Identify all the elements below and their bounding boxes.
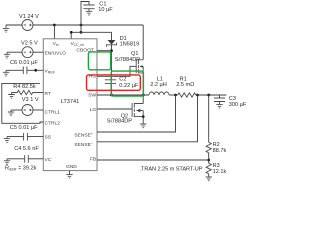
- svg-text:R4 82.5k: R4 82.5k: [13, 84, 36, 90]
- resistor R4 82.5k: [12, 84, 44, 95]
- ground (C5): [4, 137, 10, 143]
- svg-text:Vin: Vin: [53, 41, 59, 47]
- node junction: [142, 115, 145, 118]
- wire: [6, 69, 23, 71]
- node junction: [142, 94, 145, 97]
- svg-text:SW: SW: [88, 93, 96, 99]
- wire V_IN pin: [53, 25, 55, 39]
- capacitor C3: [214, 95, 247, 108]
- svg-text:88.7k: 88.7k: [213, 148, 227, 154]
- svg-text:C3: C3: [229, 96, 236, 102]
- ground (C3): [216, 102, 222, 109]
- diode D1 1N5819: [107, 32, 140, 50]
- annotation red box C2: [87, 75, 141, 90]
- resistor R1 2.5 mOhm: [176, 76, 196, 97]
- svg-text:CTRL1: CTRL1: [45, 110, 61, 116]
- svg-text:EN/UVLO: EN/UVLO: [45, 51, 67, 57]
- wire output net: [196, 94, 227, 96]
- svg-text:10 µF: 10 µF: [98, 7, 113, 13]
- svg-text:GND: GND: [66, 164, 77, 170]
- wire C1 branch: [81, 2, 89, 26]
- ground (V3 negative): [8, 110, 14, 116]
- ground (V2 negative): [4, 52, 10, 58]
- wire FB: [97, 159, 209, 161]
- transistor Q2 Si7884DP: [107, 103, 143, 124]
- wire SS: [27, 136, 43, 138]
- wire C2 top lead: [111, 51, 113, 80]
- node junction: [196, 94, 199, 97]
- ground (V1 negative): [3, 25, 9, 32]
- wire CTRL2 loop: [2, 83, 44, 123]
- wire SENSE-: [97, 95, 198, 142]
- svg-text:LG: LG: [90, 107, 97, 113]
- capacitor C1: [83, 1, 113, 13]
- ground (R4): [8, 93, 14, 99]
- ground (C4): [4, 159, 10, 165]
- wire: [169, 94, 178, 96]
- svg-text:Si7884DP: Si7884DP: [107, 118, 132, 124]
- node junction: [110, 49, 113, 52]
- svg-text:C5 0.01 µF: C5 0.01 µF: [10, 125, 38, 131]
- svg-text:RSER = 39.2k: RSER = 39.2k: [5, 166, 37, 172]
- wire VC: [28, 158, 43, 160]
- wire SENSE+: [97, 95, 176, 132]
- svg-text:1N5819: 1N5819: [120, 42, 140, 48]
- wire R2 top lead: [208, 95, 210, 142]
- svg-text:0.22 µF: 0.22 µF: [119, 83, 139, 89]
- wire Q1 source to SW: [142, 73, 144, 95]
- IC U1 LT3741: [43, 39, 97, 171]
- svg-text:C2: C2: [119, 76, 126, 82]
- wire: [7, 158, 25, 160]
- svg-text:C6 0.01 µF: C6 0.01 µF: [10, 60, 38, 66]
- ground (Q2 source): [140, 117, 146, 128]
- wire SW: [97, 94, 149, 96]
- capacitor C5: [10, 125, 38, 140]
- wire VREF: [27, 69, 43, 71]
- voltage source V1: [19, 14, 39, 31]
- wire FB node: [208, 153, 210, 164]
- ground (C1): [86, 9, 92, 15]
- wire LG: [97, 108, 132, 110]
- svg-text:R2: R2: [213, 142, 220, 148]
- wire HG: [97, 66, 136, 76]
- svg-text:V3 1 V: V3 1 V: [22, 97, 39, 103]
- ground (IC GND pin): [66, 171, 72, 179]
- node junction: [207, 94, 210, 97]
- node junction: [80, 31, 83, 34]
- wire: [7, 51, 22, 53]
- svg-text:SENSE+: SENSE+: [74, 132, 93, 138]
- wire VIN bus: [33, 25, 143, 60]
- svg-text:Si7884DP: Si7884DP: [115, 57, 140, 63]
- voltage source V2: [21, 41, 38, 58]
- capacitor C6: [10, 60, 38, 74]
- svg-text:12.1k: 12.1k: [213, 169, 227, 175]
- svg-text:V1 24 V: V1 24 V: [19, 14, 39, 20]
- svg-text:2.2 µH: 2.2 µH: [150, 82, 167, 88]
- svg-text:R3: R3: [213, 163, 220, 169]
- node junction: [207, 159, 210, 162]
- svg-text:LT3741: LT3741: [61, 99, 80, 105]
- wire: [11, 109, 22, 111]
- svg-text:V2 5 V: V2 5 V: [21, 41, 38, 47]
- svg-text:SS: SS: [45, 135, 52, 141]
- svg-text:VC: VC: [45, 157, 52, 163]
- ground (R3): [206, 174, 212, 181]
- resistor R2 88.7k: [206, 142, 226, 154]
- resistor R3 12.1k: [206, 163, 226, 175]
- svg-text:VREF: VREF: [45, 69, 56, 75]
- node junction: [174, 94, 177, 97]
- wire VCC branch: [71, 25, 111, 39]
- svg-text:VCC_int: VCC_int: [71, 41, 84, 47]
- node junction: [80, 24, 83, 27]
- svg-text:SENSE−: SENSE−: [74, 142, 93, 148]
- node junction: [70, 31, 73, 34]
- svg-text:CTRL2: CTRL2: [45, 120, 61, 126]
- wire CTRL1: [33, 109, 44, 111]
- node junction: [34, 69, 37, 72]
- capacitor C4: [14, 146, 39, 163]
- annotation green box CBOOT: [88, 52, 110, 70]
- annotation green box C2-SW: [111, 71, 143, 96]
- wire C2 bottom lead: [111, 84, 113, 95]
- svg-text:.TRAN 2.25 m START-UP: .TRAN 2.25 m START-UP: [140, 166, 203, 172]
- wire EN/UVLO: [33, 51, 44, 53]
- wire Q2 drain to SW: [142, 95, 144, 104]
- node junction: [53, 24, 56, 27]
- wire: [7, 136, 24, 138]
- capacitor C2: [105, 76, 139, 88]
- svg-text:2.5 mΩ: 2.5 mΩ: [176, 82, 194, 88]
- transistor Q1 Si7884DP: [115, 51, 143, 73]
- wire: [6, 24, 22, 26]
- svg-text:FB: FB: [90, 157, 96, 163]
- node junction: [110, 94, 113, 97]
- svg-text:300 µF: 300 µF: [229, 102, 247, 108]
- voltage source V3: [22, 97, 39, 115]
- inductor L1: [149, 76, 169, 95]
- ground (C6): [3, 70, 9, 76]
- svg-text:RT: RT: [45, 91, 51, 97]
- wire CBOOT: [97, 50, 112, 52]
- svg-text:C4 5.6 nF: C4 5.6 nF: [14, 146, 39, 152]
